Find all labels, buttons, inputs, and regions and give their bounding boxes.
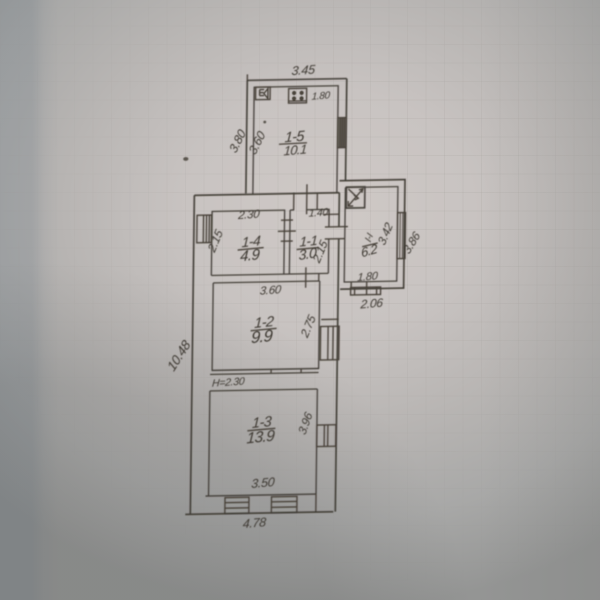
door jamb x=292	[293, 193, 295, 211]
ink blot left of 1-5	[183, 157, 188, 161]
room 1-3 box	[209, 389, 318, 496]
label 3.60 in 1-2	[259, 284, 282, 298]
svg-text:10.48: 10.48	[164, 337, 193, 374]
svg-text:3.50: 3.50	[251, 475, 275, 491]
band 1-2/1-3	[212, 369, 318, 371]
svg-text:2.75: 2.75	[297, 312, 318, 341]
svg-text:4.9: 4.9	[240, 246, 261, 265]
porch right window	[397, 212, 406, 258]
label 4.78	[242, 515, 266, 531]
label 2.15 right rotated	[309, 237, 330, 266]
1-2 box right edge extension	[318, 274, 320, 281]
label 1-2 / 9.9	[254, 314, 274, 332]
porch outline	[338, 180, 405, 290]
room 1-5 outer right wall	[345, 79, 346, 181]
partition ticks 1-4/1-1	[281, 219, 293, 221]
bottom window 1	[225, 497, 249, 513]
label 1-5 / 10.1	[284, 129, 306, 147]
label I-I / 6.2 rotated	[363, 231, 376, 244]
room 1-5 outer top wall	[247, 79, 347, 81]
label 3.60 rotated	[246, 129, 268, 157]
svg-text:10.1: 10.1	[283, 141, 307, 158]
section line below 1-5 (floor)	[194, 193, 339, 196]
label 3.86 rotated	[400, 229, 423, 257]
label 2.75 rotated	[297, 312, 318, 341]
label 1-1 / 3.0	[299, 233, 317, 250]
speck near sink	[263, 121, 266, 124]
room 1-4 box	[211, 210, 284, 275]
svg-text:13.9: 13.9	[246, 427, 275, 447]
label H=2.30	[212, 375, 246, 389]
label 1-3 / 13.9	[252, 414, 272, 432]
label 2.15 left rotated	[205, 227, 226, 256]
sink symbol	[256, 87, 271, 100]
label 3.50	[251, 475, 275, 491]
door ticks 1-1 to porch	[324, 213, 339, 215]
label 3.45	[291, 62, 317, 78]
svg-text:3.80: 3.80	[227, 127, 249, 155]
door tick to 1-2	[305, 267, 307, 288]
svg-text:1.80: 1.80	[311, 90, 331, 103]
bottom outer wall	[185, 512, 333, 515]
1-2 right window	[320, 326, 339, 360]
porch bottom window	[351, 281, 381, 295]
window left wall	[197, 215, 212, 243]
svg-text:3.45: 3.45	[291, 62, 317, 78]
svg-text:4.78: 4.78	[242, 515, 266, 531]
svg-text:H=2.30: H=2.30	[212, 375, 246, 389]
label 1.80 porch	[357, 270, 379, 284]
wall segment above window	[321, 318, 339, 320]
left outer wall	[190, 195, 194, 514]
label 10.48 rotated	[164, 337, 193, 374]
room 1-2 box	[212, 281, 320, 370]
tick top-left 1-5	[246, 74, 248, 80]
door tick x=305.5	[306, 184, 308, 214]
bottom window 2	[271, 496, 297, 512]
wall jamb right of door 1-5/1-1	[316, 193, 318, 209]
svg-text:1.80: 1.80	[357, 270, 379, 284]
room 1-1 box top (with door gap)	[289, 209, 329, 274]
svg-text:1.40: 1.40	[308, 206, 329, 219]
svg-text:3.60: 3.60	[246, 129, 268, 157]
label 3.80 rotated	[227, 127, 249, 155]
porch interior box	[344, 187, 398, 282]
svg-text:3.96: 3.96	[295, 409, 315, 436]
labels 2.30 / 1.40	[237, 209, 261, 223]
room 1-3 bottom	[206, 494, 317, 496]
room 1-5 outer left wall	[246, 80, 247, 193]
band line: bottoms of 1-4/1-1	[211, 273, 328, 275]
svg-text:3.60: 3.60	[259, 284, 282, 298]
label 1-4 / 4.9	[241, 232, 261, 250]
svg-text:2.06: 2.06	[359, 296, 384, 312]
svg-text:9.9: 9.9	[251, 326, 273, 347]
room 1-2 box top with door gap	[213, 281, 320, 283]
label 1.80 stove	[311, 90, 331, 103]
svg-text:2.15: 2.15	[205, 227, 226, 256]
right outer wall	[335, 193, 339, 512]
window right wall 1-5	[337, 118, 346, 148]
X-box stairs	[346, 187, 365, 208]
svg-text:2.30: 2.30	[237, 209, 261, 223]
1-3 right window	[317, 425, 336, 447]
svg-text:3.42: 3.42	[375, 220, 396, 248]
label 3.42 rotated	[375, 220, 396, 248]
label 3.96 rotated	[295, 409, 315, 436]
tick below 1.80	[366, 282, 368, 295]
label 2.06	[359, 296, 384, 312]
stove symbol	[288, 88, 306, 103]
room 1-5 interior box	[253, 86, 338, 194]
